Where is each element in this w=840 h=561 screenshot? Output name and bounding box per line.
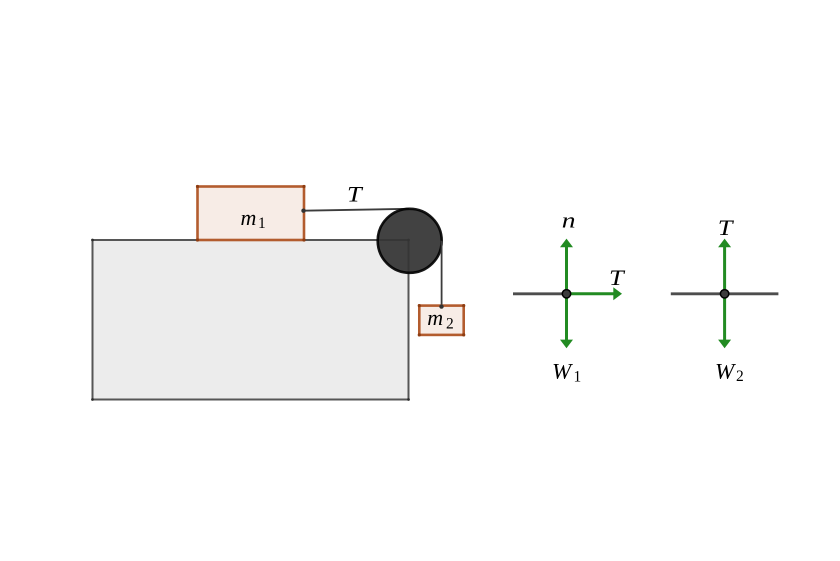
vector n arrow up FBD1 xyxy=(560,239,573,294)
node FBD1 center dot xyxy=(562,290,570,298)
node attachment dot on m2 xyxy=(439,304,443,308)
svg-text:m: m xyxy=(427,305,443,330)
node m2 corner dots xyxy=(418,304,466,337)
wire string from m1 to pulley xyxy=(304,209,410,211)
node FBD2 center dot xyxy=(720,290,728,298)
wire FBD2 horizontal surface line xyxy=(671,292,779,295)
wire string from pulley to m2 xyxy=(441,241,443,307)
node m1 corner dots xyxy=(196,185,306,242)
vector T arrow up FBD2 xyxy=(718,239,731,294)
vector W1 arrow down FBD1 xyxy=(560,294,573,349)
svg-text:W: W xyxy=(715,359,737,383)
svg-text:T: T xyxy=(609,266,625,290)
vector W2 arrow down FBD2 xyxy=(718,294,731,349)
svg-text:m: m xyxy=(241,205,257,230)
svg-text:T: T xyxy=(347,182,363,206)
table xyxy=(93,240,409,400)
svg-text:2: 2 xyxy=(736,368,744,385)
svg-text:1: 1 xyxy=(258,215,266,232)
svg-text:2: 2 xyxy=(446,316,454,333)
block m2 xyxy=(419,306,463,335)
svg-text:1: 1 xyxy=(574,369,582,386)
node table corner dots xyxy=(91,239,410,401)
vector T arrow right FBD1 xyxy=(567,287,623,300)
svg-text:W: W xyxy=(552,359,574,383)
node attachment dot on m1 xyxy=(301,209,305,213)
pulley xyxy=(378,209,442,273)
wire FBD1 horizontal surface line xyxy=(513,292,567,295)
svg-text:T: T xyxy=(718,216,734,240)
block m1 xyxy=(198,187,305,241)
svg-text:n: n xyxy=(562,209,576,233)
